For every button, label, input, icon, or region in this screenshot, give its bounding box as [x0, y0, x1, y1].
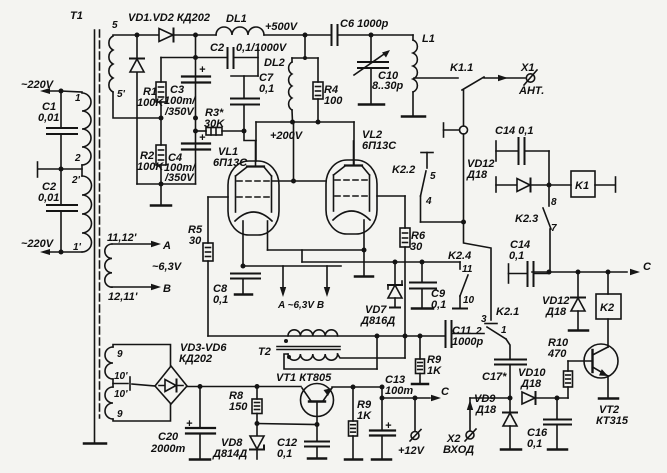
wire (T2 lower winding left) [284, 354, 377, 369]
resistor R4 [313, 58, 343, 122]
svg-text:30: 30 [189, 235, 202, 247]
svg-text:B: B [163, 283, 171, 295]
winding T1 heater 6.3V 11-12 [105, 232, 138, 303]
label VD1.VD2 [128, 12, 210, 24]
wire (R1 top to node) [161, 57, 196, 59]
node (R3/C7 junction) [242, 129, 247, 134]
svg-text:+: + [199, 132, 206, 144]
node (cathode/C8) [241, 264, 246, 269]
svg-text:0,01: 0,01 [38, 112, 59, 124]
diode VD9 [474, 393, 521, 450]
svg-text:6П13С: 6П13С [213, 157, 248, 169]
svg-text:0,1: 0,1 [509, 250, 524, 262]
wire (heater A arrow) [280, 266, 286, 297]
svg-text:K2.4: K2.4 [448, 250, 471, 262]
svg-text:КТ315: КТ315 [596, 415, 629, 427]
svg-text:0,1: 0,1 [277, 448, 292, 460]
resistor R9 (VL2 grid) [412, 334, 442, 385]
svg-text:11,12': 11,12' [107, 232, 137, 244]
svg-text:1: 1 [75, 93, 81, 104]
node (R1/R2 mid) [159, 116, 164, 121]
resistor R6 [400, 196, 426, 358]
switch K2.4 [448, 250, 475, 309]
diode VD1 [159, 29, 174, 42]
capacitor C3 electrolytic [164, 64, 210, 118]
svg-text:470: 470 [547, 348, 567, 360]
wire (base link) [257, 424, 317, 425]
svg-text:11: 11 [462, 264, 473, 275]
svg-text:L1: L1 [422, 33, 435, 45]
svg-text:Д18: Д18 [545, 306, 567, 318]
wire (grid drive bus A) [208, 335, 445, 337]
wire +200V rail [256, 122, 354, 142]
svg-text:2000m: 2000m [150, 443, 185, 455]
~220V bottom label [21, 238, 55, 250]
capacitor C13 electrolytic [370, 374, 413, 460]
~220V top label [21, 79, 55, 91]
wire (heater 9 top to bridge) [113, 345, 171, 367]
svg-text:C17*: C17* [482, 371, 507, 383]
node (K2.3 bottom) [547, 270, 552, 275]
node (C1 top) [59, 89, 64, 94]
wire (junction to anode line) [244, 131, 256, 141]
transistor VT1 [276, 372, 334, 425]
wire (heater 9 bottom to bridge) [113, 404, 171, 421]
wire (heater run) [243, 265, 341, 267]
transformer T2 [258, 330, 340, 360]
svg-text:30: 30 [410, 241, 423, 253]
wire (5' down to midpoint) [113, 92, 161, 118]
node (contact 8) [547, 183, 552, 188]
capacitor C14 (upper) [495, 125, 549, 185]
wire (to X1 with arrow) [484, 75, 525, 81]
node (R3 wire) [193, 129, 198, 134]
svg-text:4: 4 [425, 196, 432, 207]
resistor R10 [547, 337, 592, 398]
wire (T2 riser) [375, 334, 380, 370]
wire (cathode bus drop) [302, 250, 460, 262]
connector +12V [398, 398, 426, 457]
svg-text:DL1: DL1 [226, 13, 247, 25]
svg-text:~6,3V: ~6,3V [152, 261, 183, 273]
svg-text:10': 10' [114, 371, 128, 382]
node (R8/VD8/base) [255, 421, 260, 426]
svg-text:0,01: 0,01 [38, 192, 59, 204]
wire (heater B out) [112, 283, 171, 295]
svg-text:Д18: Д18 [520, 378, 542, 390]
wire (C line right) [532, 261, 652, 275]
ground (T1 core) [84, 442, 106, 445]
wire (screen grid tie) [272, 122, 327, 184]
svg-text:2': 2' [71, 175, 81, 186]
svg-text:100: 100 [324, 95, 343, 107]
node (C16 tap) [555, 396, 560, 401]
svg-text:K1.1: K1.1 [450, 62, 473, 74]
wire (feed down) [292, 35, 318, 60]
wire (C3/C4 column) [195, 35, 197, 184]
node (midpoint R3 tap) [193, 116, 198, 121]
wire (heater B arrow) [324, 266, 330, 297]
diode VD10 [518, 367, 568, 404]
capacitor C20 electrolytic [150, 387, 215, 460]
bridge VD3-VD6 [155, 342, 227, 404]
svg-text:0,1: 0,1 [259, 83, 274, 95]
svg-text:T2: T2 [258, 346, 271, 358]
resistor R3 [196, 107, 245, 135]
wire (top +500V rail) [113, 34, 216, 36]
svg-text:8..30p: 8..30p [372, 80, 403, 92]
wire (VL2 cathode to ground) [355, 220, 373, 277]
wire (X2 to junction) [470, 397, 510, 399]
svg-text:C2: C2 [210, 42, 224, 54]
node (C20 tap) [198, 384, 203, 389]
svg-text:1: 1 [501, 325, 507, 336]
capacitor C17 [482, 360, 526, 399]
svg-text:+200V: +200V [270, 130, 304, 142]
svg-text:K2: K2 [600, 302, 614, 314]
switch K2.3 [515, 185, 557, 272]
svg-text:0,1: 0,1 [527, 438, 542, 450]
svg-text:100m: 100m [385, 385, 413, 397]
diode VD7 zener [360, 260, 402, 328]
capacitor C8 [213, 274, 260, 307]
svg-text:6П13С: 6П13С [362, 140, 397, 152]
node (+12V tap) [413, 396, 418, 401]
svg-text:ВХОД: ВХОД [443, 444, 474, 456]
node (pin 1') [59, 250, 64, 255]
capacitor C2 HV 0,1/1000V [196, 42, 288, 76]
svg-text:12,11': 12,11' [108, 291, 138, 303]
capacitor C7 [231, 72, 274, 131]
svg-text:3: 3 [481, 314, 487, 325]
svg-text:K2.1: K2.1 [496, 306, 519, 318]
svg-text:КД202: КД202 [179, 353, 212, 365]
tube VL2 [326, 129, 397, 234]
svg-text:0,1/1000V: 0,1/1000V [236, 42, 288, 54]
svg-text:VT1 КТ805: VT1 КТ805 [276, 372, 332, 384]
svg-text:9: 9 [117, 349, 123, 360]
svg-text:/350V: /350V [164, 106, 195, 118]
wire (bridge output) [187, 386, 301, 388]
wire (pin 2 / 2') [61, 165, 82, 176]
node (VD2 top) [135, 33, 140, 38]
svg-text:10: 10 [463, 295, 475, 306]
wire (L1 tap to K1.1) [414, 77, 458, 79]
tube VL1 [213, 141, 279, 235]
wire (AC bottom with arrow) [40, 249, 82, 255]
svg-text:7: 7 [551, 223, 557, 234]
contact symbol (K1 armature) [444, 123, 468, 222]
svg-text:T1: T1 [70, 10, 83, 22]
node (after VD1) [193, 33, 198, 38]
resistor R5 [188, 197, 213, 336]
svg-text:АНТ.: АНТ. [518, 85, 544, 97]
capacitor C9 [410, 260, 446, 312]
wire (VL2 grid to R6) [377, 195, 405, 197]
node (DL2/R4 feed) [303, 33, 308, 38]
wire (+500V rail) [264, 21, 331, 35]
svg-text:/350V: /350V [164, 172, 195, 184]
diode VD12 (upper) [466, 158, 571, 192]
label A ~6,3V B [277, 300, 324, 311]
svg-text:1K: 1K [357, 410, 372, 422]
svg-text:1000p: 1000p [452, 336, 483, 348]
svg-text:8: 8 [551, 197, 557, 208]
wire (VL1 cathode) [242, 221, 244, 266]
node (R4 bottom) [316, 120, 321, 125]
wire (T2 lower winding right) [338, 334, 408, 359]
wire (AC top with arrow) [40, 88, 61, 94]
node (VD12 lower tap) [576, 270, 581, 275]
wire (VL1 beam plate) [268, 221, 365, 250]
svg-text:X1: X1 [520, 62, 534, 74]
svg-text:+: + [199, 64, 206, 76]
connector X1 [518, 62, 544, 97]
wire (VL1 grid to R5) [208, 196, 228, 198]
svg-text:150: 150 [229, 401, 248, 413]
capacitor C2 (mains) [38, 169, 77, 252]
resistor R2 [137, 118, 166, 184]
connector X2 [443, 398, 476, 456]
wire (bottom return) [137, 183, 196, 185]
diode VD8 zener [212, 424, 264, 461]
wire (diagonal to K2.1) [464, 222, 498, 324]
wire (C output arrow) [431, 386, 450, 401]
node (VD9 junction) [508, 396, 513, 401]
svg-text:5: 5 [112, 20, 118, 31]
node (antenna line junction) [461, 220, 466, 225]
capacitor C10 variable [354, 35, 403, 105]
node (C10 tap) [369, 33, 374, 38]
svg-text:Д18: Д18 [475, 404, 497, 416]
svg-text:1K: 1K [427, 365, 442, 377]
node (C2 HV tap) [193, 55, 198, 60]
svg-text:K2.3: K2.3 [515, 213, 538, 225]
node (R8 top) [255, 384, 260, 389]
svg-text:A ~6,3V B: A ~6,3V B [277, 300, 324, 311]
svg-text:+500V: +500V [265, 21, 299, 33]
wire (jog down) [380, 387, 431, 401]
transistor VT2 [584, 319, 629, 427]
capacitor C16 [527, 398, 571, 450]
winding T1 secondary 5-5' [109, 20, 126, 100]
node (ground tap) [159, 182, 164, 187]
inductor DL1 [216, 13, 264, 35]
svg-text:5: 5 [430, 171, 436, 182]
svg-text:9: 9 [117, 409, 123, 420]
resistor R1 [137, 58, 166, 119]
diode VD2 [130, 35, 144, 184]
wire (emitter rail) [332, 386, 382, 388]
svg-text:2: 2 [74, 153, 81, 164]
capacitor C12 [277, 422, 329, 460]
node (DL2 bottom) [290, 120, 295, 125]
capacitor C4 electrolytic [164, 132, 210, 184]
svg-text:+12V: +12V [398, 445, 426, 457]
ground (rectifier) [151, 184, 171, 206]
inductor DL2 [264, 57, 293, 122]
svg-text:C20: C20 [158, 431, 179, 443]
node (C1/C2 mid) [59, 167, 64, 172]
svg-text:C: C [643, 261, 652, 273]
svg-text:Д18: Д18 [466, 169, 488, 181]
svg-text:DL2: DL2 [264, 57, 285, 69]
wire (heater A out) [112, 240, 171, 252]
label ~6,3V [152, 261, 183, 273]
svg-text:K2.2: K2.2 [392, 164, 415, 176]
svg-text:2: 2 [475, 326, 482, 337]
capacitor C6 [332, 18, 414, 45]
transformer T1 core [95, 30, 100, 443]
winding T1 primary 2'-1' [71, 175, 92, 253]
svg-text:Д814Д: Д814Д [212, 448, 247, 460]
svg-text:0,1: 0,1 [213, 294, 228, 306]
svg-text:C: C [441, 386, 450, 398]
resistor R9 (bias) [345, 387, 372, 460]
svg-text:5': 5' [117, 89, 126, 100]
winding T1 heater 9-10' [105, 347, 128, 420]
capacitor C14 (lower) [509, 239, 550, 286]
switch K2.1 [475, 306, 519, 359]
svg-text:10': 10' [114, 389, 128, 400]
wire (to pin 1) [61, 91, 82, 92]
capacitor C11 [446, 321, 485, 348]
svg-text:C14 0,1: C14 0,1 [495, 125, 534, 137]
svg-text:Д816Д: Д816Д [360, 315, 395, 327]
resistor R8 [229, 387, 262, 424]
transformer T1 label [70, 10, 83, 22]
switch K1.1 [450, 62, 484, 126]
relay K1 [571, 171, 616, 197]
wire (rail left corner to VL1 anode) [255, 122, 257, 161]
node (R9 top) [351, 385, 356, 390]
svg-text:~220V: ~220V [21, 238, 55, 250]
svg-text:C6 1000p: C6 1000p [340, 18, 389, 30]
capacitor C1 [38, 91, 77, 169]
winding T1 primary 1-2 [74, 93, 91, 165]
svg-text:A: A [162, 240, 171, 252]
diode VD12 (lower) [542, 272, 588, 331]
node (C13 jog) [380, 385, 385, 390]
wire (rail right corner to VL2 anode) [353, 122, 355, 165]
wire (mid tap with bar) [38, 162, 62, 177]
relay K2 [596, 272, 621, 319]
switch K2.2 [392, 153, 464, 223]
svg-text:K1: K1 [575, 180, 589, 192]
node (K2 tap) [606, 270, 611, 275]
inductor L1 [402, 33, 435, 117]
svg-text:VD1.VD2 КД202: VD1.VD2 КД202 [128, 12, 210, 24]
wire (heater tap with bar) [113, 377, 155, 390]
